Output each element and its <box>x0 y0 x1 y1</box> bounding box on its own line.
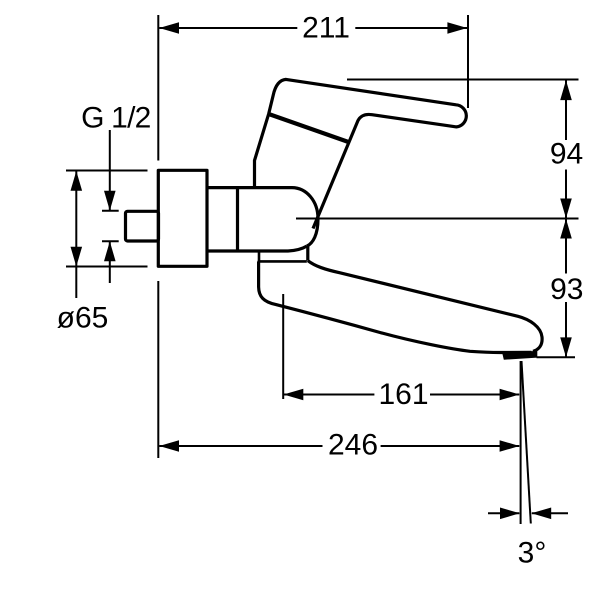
svg-text:G 1/2: G 1/2 <box>81 102 150 135</box>
svg-text:94: 94 <box>550 138 583 171</box>
svg-text:ø65: ø65 <box>57 302 109 335</box>
svg-text:93: 93 <box>550 273 583 306</box>
svg-text:161: 161 <box>378 378 428 411</box>
svg-text:211: 211 <box>302 12 350 45</box>
svg-text:246: 246 <box>328 429 378 462</box>
svg-text:3°: 3° <box>518 537 547 570</box>
